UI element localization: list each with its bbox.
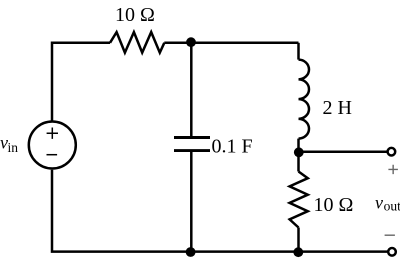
wire output node to resistor R2 [297, 152, 300, 172]
svg-text:2 H: 2 H [323, 97, 352, 119]
svg-text:0.1 F: 0.1 F [212, 136, 253, 158]
capacitor C1 0.1F plates [174, 138, 210, 151]
node junction dot (bottom-right) [293, 247, 303, 257]
inductor L1 2H (4 bumps) [299, 60, 310, 139]
plus sign (vout) [388, 165, 398, 174]
resistor R1 10Ω (top horizontal zigzag) [110, 32, 164, 53]
wire top-middle: resistor to top-right corner [164, 42, 298, 45]
svg-text:10 Ω: 10 Ω [314, 194, 354, 216]
minus sign inside source [47, 154, 58, 156]
wire capacitor top lead [190, 43, 193, 138]
minus sign (vout) [385, 234, 395, 236]
svg-text:out: out [384, 199, 400, 214]
node A junction dot (top of capacitor branch) [186, 37, 196, 47]
wire capacitor bottom lead [190, 151, 193, 252]
wire output node to top terminal [299, 150, 388, 153]
terminal (open circle, vout -) [388, 248, 396, 256]
svg-text:10 Ω: 10 Ω [115, 4, 155, 26]
node B junction dot (output node) [294, 147, 304, 157]
node junction dot (bottom of capacitor branch) [186, 247, 196, 257]
plus sign inside source [47, 128, 58, 139]
resistor R2 10Ω (right vertical zigzag) [290, 172, 308, 228]
terminal (open circle, vout +) [388, 148, 396, 156]
wire top-left: source top to resistor [52, 43, 110, 121]
wire inductor bottom to output node [297, 139, 300, 152]
svg-text:in: in [8, 140, 19, 155]
wire top-right corner down to inductor [297, 43, 300, 60]
voltage source U1 vin (circle) [29, 122, 76, 169]
wire resistor R2 bottom lead [297, 228, 300, 252]
svg-text:v: v [375, 192, 383, 212]
wire left-bottom: source bottom to bottom-left corner [52, 170, 388, 252]
